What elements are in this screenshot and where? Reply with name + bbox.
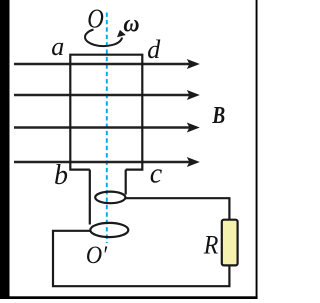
frame bottom line: [0, 296, 258, 299]
wire from upper ring to resistor top: [126, 198, 230, 220]
svg-text:b: b: [54, 160, 68, 191]
slip ring lower: [90, 223, 128, 237]
svg-text:O′: O′: [86, 242, 108, 269]
field line arrow 2: [14, 90, 200, 100]
svg-text:R: R: [203, 231, 219, 259]
frame right line: [256, 0, 258, 299]
svg-text:B: B: [212, 102, 226, 129]
field line arrow 4: [14, 157, 200, 167]
wire lead right (c side): [125, 170, 127, 195]
svg-text:d: d: [147, 35, 161, 64]
field line arrow 1: [14, 59, 200, 69]
field line arrow 3: [14, 123, 200, 133]
coil abcd: [70, 55, 142, 170]
svg-text:O: O: [87, 5, 104, 34]
svg-text:a: a: [51, 32, 64, 61]
resistor R1: [222, 220, 238, 266]
wire lead left (b side): [89, 170, 91, 225]
slip ring upper: [95, 192, 125, 204]
frame left bar: [0, 0, 10, 299]
axis dashed line O-O': [106, 13, 108, 244]
rotation arc omega: [85, 30, 122, 47]
wire from resistor bottom around to lower ring: [53, 231, 229, 286]
rotation arrowhead: [117, 30, 126, 37]
svg-text:ω: ω: [123, 11, 139, 38]
svg-text:c: c: [150, 159, 163, 190]
